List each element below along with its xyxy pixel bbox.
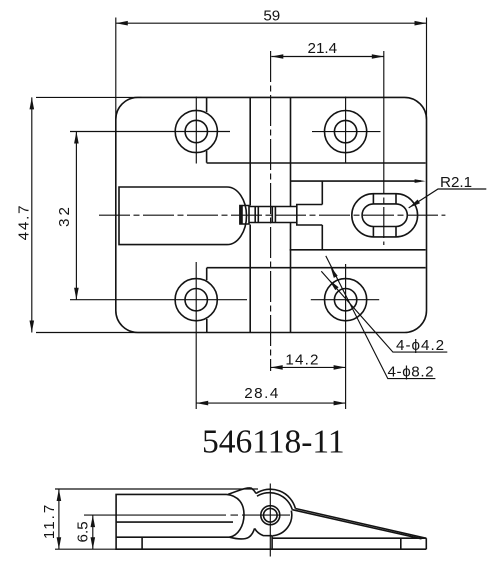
svg-text:6.5: 6.5 [75,521,92,542]
right leaf raised section lower edge [290,249,426,251]
svg-text:11.7: 11.7 [41,503,58,539]
svg-text:28.4: 28.4 [244,385,280,402]
hinge plate outline (top view) [116,97,427,332]
hole bottom-left counterbore [175,279,217,321]
dimension 28.4 [196,402,345,404]
side view pin outer [261,506,280,525]
knuckle cut edge right [290,97,292,332]
hole top-left drill [185,120,207,142]
side view pin inner [264,508,278,522]
leaf separation line lower [207,267,426,269]
knuckle edge lines on pin [255,207,275,223]
side view curl bump and notch [228,488,256,495]
svg-text:R2.1: R2.1 [440,174,472,191]
side view pin vertical centerline [269,484,271,557]
dimension 32 [75,132,77,300]
label 4-phi4.2 with leader [321,271,447,352]
slot drill (obround inner R2.1) [362,204,407,227]
hole bottom-right centerlines (vertical doubles as 14.2/28.4 extension) [311,264,379,409]
side view leaf body [116,494,426,549]
dimension 59 [116,18,427,120]
dimension 44.7 [32,97,170,332]
dimension 14.2 [271,366,346,368]
hole top-left counterbore [175,110,217,152]
left leaf step edges upper [206,97,208,162]
left leaf slot cutout [119,187,247,245]
hinge pin body [249,207,296,223]
side view base plate [273,538,427,549]
hole bottom-left centerlines (vertical doubles as 28.4 extension) [70,262,247,409]
hole bottom-right drill [334,289,356,311]
hole bottom-right counterbore [325,279,367,321]
slot transition edges [373,194,396,237]
svg-text:59: 59 [263,8,280,25]
right leaf tongue [297,181,323,250]
side view knuckle curl inner [257,493,292,510]
svg-text:4-ϕ8.2: 4-ϕ8.2 [388,364,435,381]
label R2.1 with leader [409,189,487,208]
dimension 11.7 [55,489,258,549]
side view knuckle lower outline [255,511,292,550]
side view pin horizontal centerline (6.5 extension) [84,514,290,516]
part horizontal centerline [99,214,445,216]
side view flap upper surface [295,509,426,539]
svg-text:44.7: 44.7 [16,204,33,241]
svg-text:32: 32 [56,204,73,227]
label 4-phi8.2 with leader [326,256,436,379]
hinge pin head [240,206,249,225]
left leaf step edges lower [206,268,208,333]
dimension 6.5 [92,515,94,549]
dimension 21.4 [271,56,384,58]
leaf separation line upper [207,162,426,164]
hole bottom-left drill [185,289,207,311]
side view leaf underside curve [230,528,255,539]
part vertical centerline [270,51,272,371]
right leaf raised section upper edge [291,180,422,182]
slot vertical centerline (21.4 extension) [383,51,385,163]
hole top-right centerlines [312,97,381,164]
svg-text:21.4: 21.4 [308,40,338,57]
hole top-left centerlines [70,97,230,164]
knuckle cut edge left [249,97,251,332]
hole top-right counterbore [325,111,367,153]
hole top-right drill [334,120,356,142]
slot counterbore (obround outer) [352,194,418,237]
arrowhead on upper section edge [415,179,426,183]
svg-text:14.2: 14.2 [285,351,319,368]
side view flap lower surface [292,510,421,539]
side view knuckle curl outer [256,489,295,508]
svg-text:546118-11: 546118-11 [202,424,345,461]
svg-text:4-ϕ4.2: 4-ϕ4.2 [396,337,445,354]
side view leaf nose [227,494,245,537]
